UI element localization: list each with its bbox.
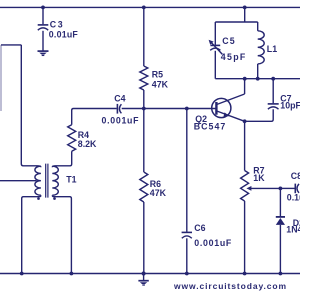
- wire T1 secondary top lead to R4: [52, 151, 71, 167]
- svg-text:47K: 47K: [150, 188, 167, 198]
- node rail / R7: [243, 272, 247, 276]
- wire C3 lower lead: [42, 31, 44, 51]
- trimmer capacitor C5 45pF: [209, 40, 223, 55]
- capacitor C6: [182, 232, 192, 238]
- wire C6 lower lead: [186, 238, 188, 273]
- capacitor C7 10pF: [268, 104, 279, 109]
- diode D2 1N4148: [276, 217, 285, 225]
- svg-text:10pF: 10pF: [280, 100, 300, 110]
- transformer T1 core: [46, 164, 48, 198]
- wire Q2 emitter node down: [244, 121, 246, 170]
- wire T1 primary bottom lead to ground rail: [22, 195, 41, 273]
- svg-text:T1: T1: [66, 175, 76, 185]
- node rail / R6 + ground: [142, 271, 146, 275]
- wire tank bottom / antenna line: [215, 78, 300, 80]
- transistor Q2 BC547: [212, 94, 245, 121]
- node tank bottom / C7 branch: [271, 77, 275, 81]
- T1 phasing dot left: [37, 197, 40, 200]
- wire cut-off left branch (vertical at image edge): [0, 45, 2, 111]
- wire R6 lower lead: [143, 202, 145, 274]
- svg-text:C8: C8: [291, 171, 300, 181]
- node tank bottom / L1: [256, 77, 260, 81]
- wire L1 upper lead: [257, 22, 259, 31]
- svg-text:BC547: BC547: [194, 121, 226, 131]
- wiper arrow into R7: [246, 186, 280, 191]
- wire Q2 collector riser: [244, 79, 246, 94]
- wire tank top side: [215, 21, 257, 23]
- node top-rail / C3 junction: [41, 6, 45, 10]
- node emitter / C7 junction: [243, 119, 247, 123]
- svg-text:L1: L1: [267, 44, 277, 54]
- svg-text:0.1uF: 0.1uF: [287, 193, 300, 203]
- resistor R6 47K: [140, 172, 148, 202]
- wire R5 lower lead: [143, 90, 145, 109]
- wire T1 center tap: [0, 180, 37, 182]
- wire C4 to base-node junction: [122, 108, 217, 110]
- svg-text:C4: C4: [114, 94, 125, 104]
- wire R7 lower lead: [244, 201, 246, 274]
- wire R4 top lead: [72, 109, 117, 125]
- svg-text:8.2K: 8.2K: [78, 139, 97, 149]
- node top-rail / tank junction: [243, 6, 247, 10]
- svg-text:0.001uF: 0.001uF: [194, 238, 232, 248]
- svg-text:45pF: 45pF: [221, 52, 246, 62]
- svg-text:C3: C3: [50, 19, 63, 29]
- node rail / T1 left: [20, 272, 24, 276]
- wire tank feed from top rail: [244, 7, 246, 22]
- transformer T1 secondary winding (right): [52, 166, 58, 195]
- node rail / diode: [279, 272, 283, 276]
- wire top-left horizontal: [1, 44, 21, 46]
- capacitor C8 0.1uF (cut at edge): [295, 184, 299, 194]
- wire L1 lower lead: [257, 64, 259, 79]
- wire left vertical down to T1 primary top: [21, 45, 41, 167]
- svg-text:47K: 47K: [152, 80, 169, 90]
- wire C7 lower lead to emitter node: [245, 109, 274, 121]
- ground symbol under rail: [138, 274, 148, 286]
- inductor L1: [258, 31, 265, 64]
- node tank bottom / collector riser: [243, 77, 247, 81]
- wire C5 lower lead: [214, 51, 216, 79]
- wire C6 upper lead: [186, 109, 188, 232]
- wire R5 upper lead: [143, 7, 145, 66]
- wire top supply rail: [0, 6, 300, 8]
- ground below C3: [38, 51, 49, 55]
- svg-text:R5: R5: [152, 70, 163, 80]
- svg-text:1K: 1K: [253, 173, 265, 183]
- svg-text:1N4148: 1N4148: [286, 225, 300, 235]
- wire R6 upper lead: [143, 109, 145, 173]
- resistor R5 47K: [140, 66, 148, 90]
- wire diode lower lead: [279, 225, 281, 274]
- node rail / C6: [185, 272, 189, 276]
- wire T1 secondary bottom lead to ground rail: [52, 195, 71, 273]
- capacitor C3: [38, 25, 49, 30]
- svg-text:0.001uF: 0.001uF: [102, 115, 140, 125]
- wire C7 upper lead: [272, 79, 274, 104]
- wire to C8: [280, 187, 294, 189]
- node wiper / diode / C8 junction: [279, 187, 283, 191]
- svg-text:0.01uF: 0.01uF: [49, 30, 79, 40]
- svg-text:C5: C5: [222, 36, 234, 46]
- wire C3 upper lead: [42, 7, 44, 24]
- node C6 branch junction: [185, 107, 189, 111]
- transformer T1 primary winding (left, center-tapped): [35, 166, 41, 195]
- resistor R7 1K: [241, 171, 249, 202]
- node top-rail / R5 junction: [142, 6, 146, 10]
- svg-text:C6: C6: [194, 223, 205, 233]
- node rail / T1 right: [70, 272, 74, 276]
- capacitor C4: [117, 104, 121, 114]
- wire ground rail: [0, 273, 300, 275]
- svg-text:www.circuitstoday.com: www.circuitstoday.com: [173, 281, 286, 291]
- wire C5 upper lead: [214, 22, 216, 45]
- T1 phasing dot right: [53, 197, 56, 200]
- resistor R4 8.2K: [68, 125, 76, 152]
- node R5/R6/C4 junction: [142, 107, 146, 111]
- wire diode upper lead: [279, 188, 281, 216]
